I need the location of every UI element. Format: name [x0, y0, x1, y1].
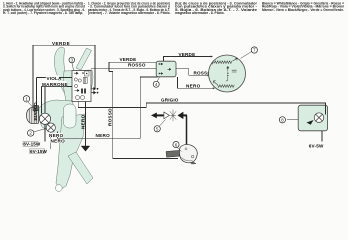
svg-text:8: 8: [281, 118, 284, 123]
spark plug 5: [151, 110, 187, 122]
wire grigio to tail lamp: [78, 102, 325, 113]
label MARRONE: [41, 81, 68, 87]
svg-text:VERDE: VERDE: [52, 41, 70, 46]
legend text block english: [3, 2, 86, 15]
scooter lower fork leg: [68, 152, 93, 184]
svg-text:1: 1: [25, 97, 28, 102]
svg-text:ROSSO: ROSSO: [107, 108, 112, 126]
svg-text:NERO: NERO: [51, 139, 66, 144]
legend colour key: [262, 2, 344, 12]
callout 3: [69, 57, 75, 70]
svg-text:VERDE: VERDE: [179, 52, 196, 57]
wire nero horizontal: [57, 77, 157, 138]
wire nero from switch down: [85, 102, 87, 147]
scooter fork tube detail: [64, 104, 77, 128]
svg-text:6V-5W: 6V-5W: [309, 143, 324, 148]
wire top loop to horn: [33, 45, 95, 112]
svg-text:6V-15W: 6V-15W: [30, 149, 48, 154]
wire spark to coil: [186, 115, 188, 146]
svg-text:GRIGIO: GRIGIO: [161, 98, 179, 103]
svg-text:(exterior) - 7. Volante magnet: (exterior) - 7. Volante magnetico altern…: [88, 11, 171, 15]
svg-text:magnetico alternador - 8. Pilo: magnetico alternador - 8. Piloto.: [175, 11, 225, 15]
horn 1: [27, 106, 39, 124]
callout 1: [23, 96, 32, 107]
callout 6: [173, 142, 182, 152]
scooter brake lever: [76, 48, 92, 70]
wire to lamp1: [44, 87, 46, 114]
switch 3: [72, 71, 91, 102]
label VIOLA: [46, 75, 62, 80]
scooter headlamp shell: [39, 100, 76, 136]
scooter body outline handlebar headset: [54, 47, 93, 101]
svg-text:6V-15W: 6V-15W: [23, 142, 41, 147]
svg-text:NERO: NERO: [49, 133, 64, 138]
headlamp bulb main: [39, 113, 50, 124]
switch push button contacts: [92, 88, 99, 94]
label VERDE top: [52, 41, 72, 46]
ground: [81, 146, 90, 151]
flywheel magneto 7: [209, 55, 246, 92]
wire rosso socket to flywheel: [176, 69, 209, 76]
svg-text:NERO: NERO: [186, 84, 201, 89]
svg-text:BIANCO: BIANCO: [33, 102, 38, 121]
callout 8: [279, 117, 298, 123]
svg-text:ROSSO: ROSSO: [128, 62, 146, 67]
legend text block spanish continuation: [175, 2, 258, 15]
wire viola run: [37, 77, 73, 79]
wire rosso to socket: [91, 68, 156, 70]
svg-text:Marron - Nero = Black/Negro -: Marron - Nero = Black/Negro - Verde = Gr…: [262, 8, 344, 12]
callout 4: [153, 77, 159, 87]
wire nero socket to flywheel: [178, 77, 215, 88]
scooter front fork and fender: [56, 114, 85, 190]
svg-text:MARRONE: MARRONE: [42, 82, 68, 87]
label GRIGIO: [161, 98, 179, 103]
tail lamp 8: [298, 105, 327, 141]
wire verde to socket: [109, 62, 156, 71]
label NERO left upper: [48, 133, 63, 138]
svg-text:3: 3: [71, 58, 74, 63]
wire verde socket to flywheel: [164, 57, 213, 62]
label 6V-15W lower: [30, 132, 51, 154]
callout 2: [28, 128, 47, 136]
label NERO left lower: [50, 139, 65, 144]
svg-text:NERO: NERO: [96, 133, 111, 138]
headlamp bulb pilot: [46, 123, 55, 132]
svg-text:6: 6: [175, 142, 178, 147]
scooter bottom loop: [55, 185, 62, 192]
legend text block spanish: [88, 2, 171, 15]
callout 7: [241, 47, 258, 59]
wire marrone run: [42, 87, 72, 114]
svg-text:VIOLA: VIOLA: [47, 76, 63, 81]
svg-text:7: 7: [253, 48, 256, 53]
svg-text:H. T. coil (outer) - 7. Flywhe: H. T. coil (outer) - 7. Flywheel magneto…: [3, 11, 83, 15]
label 6V-15W upper: [23, 125, 45, 147]
callout 5: [154, 120, 165, 132]
svg-text:5: 5: [156, 127, 159, 132]
wire bianco to horn: [36, 78, 38, 108]
svg-text:4: 4: [155, 82, 158, 87]
svg-text:2: 2: [29, 131, 32, 136]
socket 4: [156, 61, 176, 77]
wire rosso vertical branch: [109, 71, 178, 158]
svg-text:NERO: NERO: [81, 114, 86, 129]
HT coil 6: [166, 144, 197, 164]
